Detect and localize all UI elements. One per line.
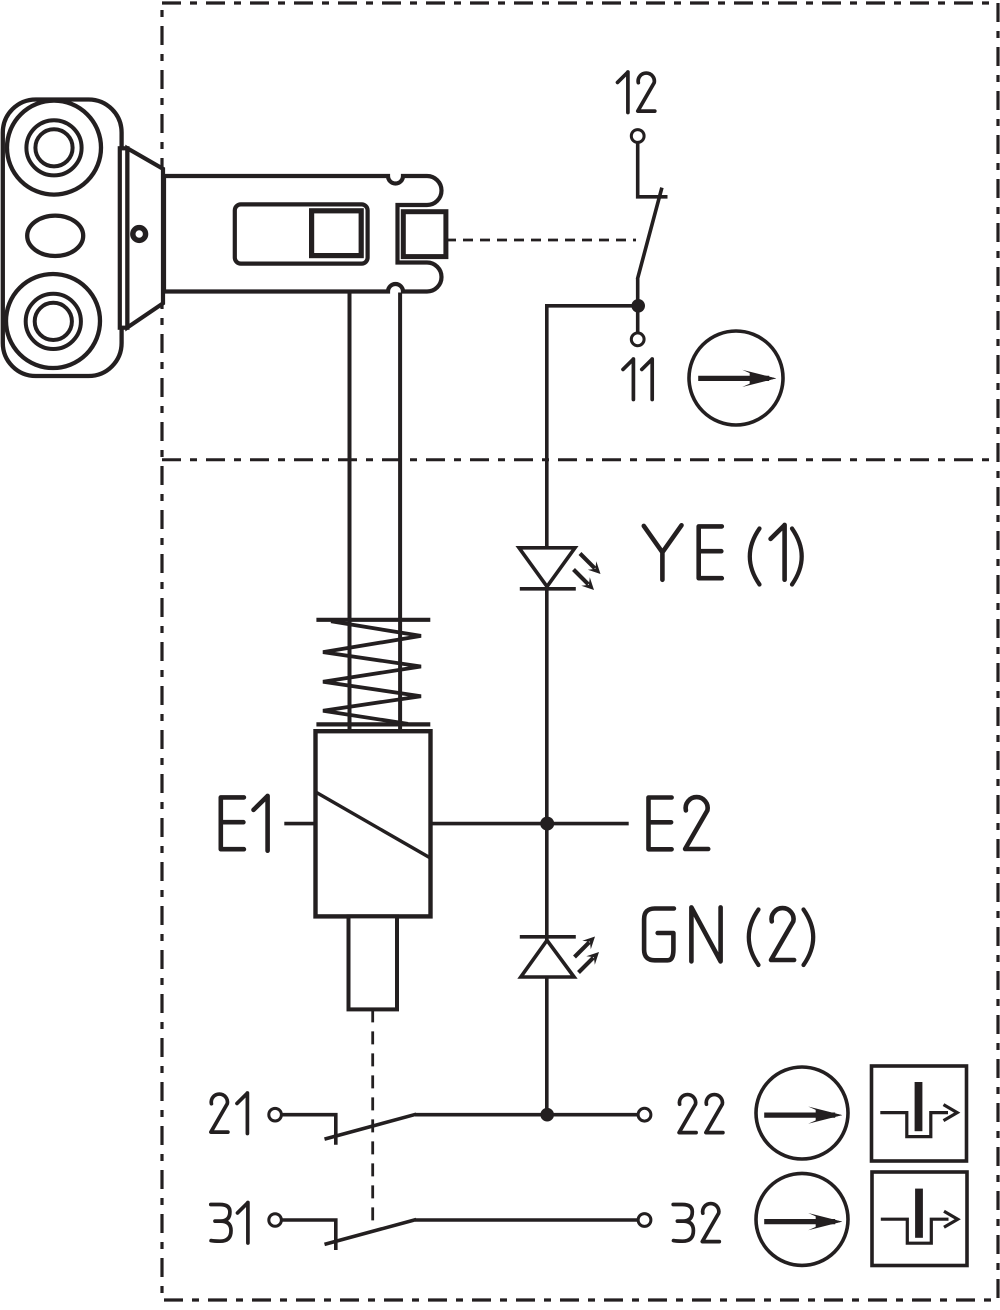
- plunger rod left: [348, 293, 352, 732]
- actuator bottom roller outer: [6, 274, 100, 368]
- wire blade to terminal 32: [415, 1218, 638, 1222]
- label 11: [623, 359, 652, 400]
- actuator bottom roller middle: [26, 294, 81, 349]
- LED GN emission arrows: [575, 942, 590, 957]
- node 22 junction: [540, 1108, 554, 1122]
- actuator middle slot: [27, 216, 83, 256]
- terminal 12: [631, 130, 644, 143]
- terminal 21: [269, 1108, 282, 1121]
- label 12: [618, 72, 655, 113]
- label 31: [211, 1203, 248, 1244]
- node 11 junction: [631, 299, 645, 313]
- label YE (1): [644, 525, 722, 580]
- actuator top roller outer: [7, 101, 101, 195]
- label 32: [673, 1204, 719, 1242]
- actuator top roller inner: [35, 129, 72, 166]
- direction circle contact 32: [756, 1173, 848, 1265]
- LED GN cathode bar: [520, 935, 576, 939]
- terminal 22: [638, 1108, 651, 1121]
- LED YE cathode bar: [520, 587, 576, 591]
- wire E1 lead: [284, 822, 315, 826]
- contact 31-32 blade: [325, 1220, 417, 1245]
- label GN (2): [644, 907, 721, 961]
- actuation direction circle U1: [689, 331, 783, 425]
- terminal 31: [269, 1214, 282, 1227]
- forced-opening pulse symbol 22: [880, 1113, 948, 1137]
- actuator entry funnel: [127, 148, 163, 327]
- actuator bolt: [133, 228, 146, 241]
- direction arrow contact 32: [764, 1219, 835, 1224]
- spring coil: [323, 621, 421, 724]
- wire: GN LED to contact 22 junction: [545, 975, 549, 1115]
- terminal 32: [638, 1214, 651, 1227]
- solenoid plunger: [349, 916, 398, 1009]
- switch head housing: [164, 176, 442, 292]
- node E2 junction: [540, 817, 554, 831]
- contact 31 fixed seat: [282, 1220, 336, 1250]
- label E1: [221, 796, 268, 851]
- head/body divider dash-dot line: [162, 458, 998, 461]
- contact 21-22 blade: [325, 1114, 417, 1139]
- LED YE emission arrows: [580, 554, 595, 569]
- forced-opening symbol box 32: [872, 1172, 967, 1266]
- wire: junction 11/12 to LED chain (corner): [547, 306, 638, 552]
- head latch block: [312, 211, 362, 256]
- spring top plate: [316, 618, 430, 622]
- actuator flange plate: [120, 148, 128, 327]
- wire: LED chain vertical through E2 node: [545, 585, 549, 941]
- LED YE anode triangle: [519, 548, 575, 587]
- mechanical link plunger to contacts (dashed): [371, 1009, 374, 1222]
- contact 12-11 blade: [638, 188, 662, 333]
- forced-opening symbol box 22: [872, 1066, 967, 1161]
- actuator body: [3, 100, 122, 377]
- contact 12 fixed seat: [638, 143, 668, 197]
- solenoid diagonal: [317, 793, 430, 858]
- wire E2 lead: [431, 822, 629, 826]
- LED GN anode triangle: [521, 940, 574, 977]
- wire blade to terminal 22: [415, 1113, 638, 1117]
- contact 21 fixed seat: [282, 1115, 336, 1145]
- mechanical link head to contact 12-11 (dashed): [446, 239, 636, 242]
- label 21: [211, 1093, 248, 1134]
- actuation arrow U1: [698, 376, 769, 381]
- head cam block: [403, 212, 446, 257]
- solenoid coil E1 box: [316, 731, 431, 916]
- terminal 11: [631, 333, 644, 346]
- spring bottom plate: [316, 722, 430, 726]
- actuator bottom roller inner: [35, 303, 72, 340]
- actuator top roller middle: [26, 120, 81, 175]
- direction circle contact 22: [756, 1067, 848, 1159]
- label E2: [649, 797, 709, 849]
- head window: [235, 204, 368, 263]
- plunger rod right: [398, 293, 402, 732]
- direction arrow contact 22: [764, 1112, 835, 1117]
- forced-opening pulse symbol 32: [881, 1219, 949, 1243]
- label 22: [679, 1095, 723, 1133]
